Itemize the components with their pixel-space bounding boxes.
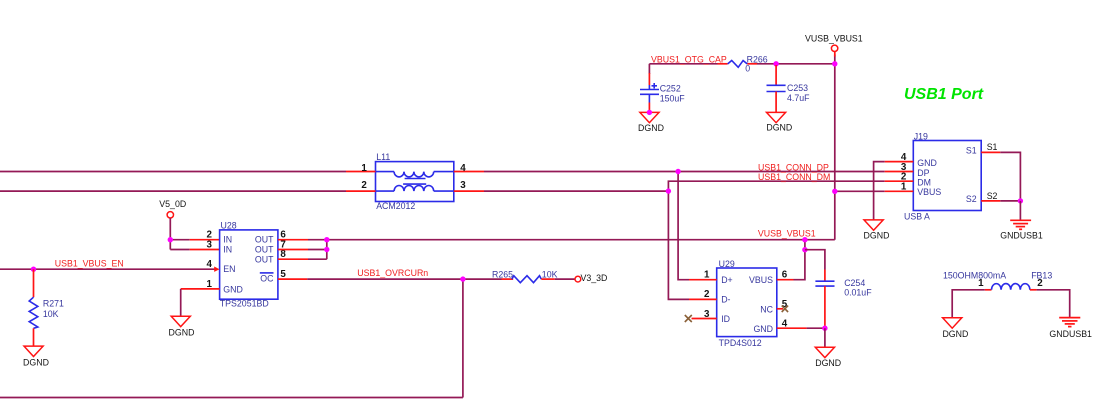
ground GNDUSB1 under FB13 [1059, 318, 1080, 327]
pin 4 stub of L11 [454, 171, 484, 173]
svg-text:DGND: DGND [864, 231, 890, 241]
wire bottom vertical to USB1_OVRCURn [462, 279, 464, 397]
svg-text:DGND: DGND [815, 358, 841, 368]
wire U29 GND pin [777, 327, 825, 329]
junction OUT 7 [324, 247, 329, 252]
svg-text:10K: 10K [43, 309, 59, 319]
wire USB1_CONN_DM left segment (choke D-) [0, 190, 346, 192]
wire D+ vertical to U29 [678, 172, 689, 280]
svg-text:OC: OC [260, 274, 274, 284]
wire OUT pin 8 [278, 240, 327, 260]
wire VUSB_VBUS1 horizontal [327, 239, 835, 241]
wire S1 [981, 152, 1020, 201]
pin EN arrow [214, 267, 219, 272]
junction C254 ground [822, 326, 827, 331]
svg-text:V5_0D: V5_0D [159, 199, 186, 209]
ground GNDUSB1 under J19 [1010, 220, 1031, 229]
pin stub GND J19 [885, 161, 914, 163]
pin stub D+ [689, 279, 717, 281]
svg-text:TPD4S012: TPD4S012 [719, 338, 762, 348]
ground DGND under C254 [815, 347, 834, 357]
wire S2 [981, 200, 1020, 202]
svg-text:S1: S1 [966, 145, 977, 155]
junction DP [675, 169, 680, 174]
svg-text:USB1_CONN_DP: USB1_CONN_DP [758, 162, 829, 172]
svg-text:OUT: OUT [255, 254, 274, 264]
wire OUT pin 7 [278, 249, 327, 251]
wire V5_0D to IN pin 2 [170, 239, 219, 241]
transistor U29 body [717, 268, 777, 337]
junction R271 tap [31, 267, 36, 272]
junction DM [666, 188, 671, 193]
ferrite bead FB13 [985, 284, 1037, 290]
svg-text:1: 1 [978, 278, 984, 289]
wire U28 GND pin [181, 289, 220, 316]
svg-text:R271: R271 [43, 298, 64, 308]
svg-text:2: 2 [361, 180, 367, 191]
inductor L11 [376, 162, 454, 202]
svg-text:EN: EN [223, 264, 235, 274]
wire USB1_CONN_DP left segment [0, 171, 346, 173]
overline OC [260, 272, 274, 274]
ground DGND under R271 [24, 346, 43, 356]
pin 2 stub of L11 [346, 190, 376, 192]
svg-text:3: 3 [207, 239, 213, 250]
svg-text:0: 0 [745, 63, 750, 73]
svg-text:DGND: DGND [942, 329, 968, 339]
svg-text:2: 2 [1037, 278, 1043, 289]
svg-text:DGND: DGND [23, 358, 49, 368]
wire USB1_VBUS_EN [0, 268, 215, 270]
svg-text:C252: C252 [660, 83, 681, 93]
svg-text:ACM2012: ACM2012 [376, 201, 415, 211]
svg-text:DGND: DGND [638, 123, 664, 133]
svg-text:GNDUSB1: GNDUSB1 [1000, 230, 1043, 240]
ground DGND under C253 [767, 112, 786, 122]
wire D- vertical to U29 [668, 191, 689, 299]
svg-text:L11: L11 [376, 152, 390, 162]
junction VUSB tap [802, 237, 807, 242]
ground DGND under C252 [640, 112, 659, 122]
connector J19 body [913, 141, 981, 211]
wire J19 VBUS feed [835, 190, 885, 192]
wire bottom horizontal run [0, 397, 463, 399]
wire C254 branch top [805, 250, 825, 270]
svg-text:DGND: DGND [766, 123, 792, 133]
wire U29 VBUS to rail [777, 240, 805, 280]
junction V5_0D [168, 237, 173, 242]
svg-text:USB1_CONN_DM: USB1_CONN_DM [758, 172, 830, 182]
wire USB1_CONN_DM upper segment to J19 [668, 181, 884, 191]
power symbol V3_3D [575, 276, 581, 282]
svg-text:IN: IN [223, 235, 232, 245]
op-amp U28 body [220, 230, 278, 299]
ground DGND under FB13 [943, 318, 962, 328]
resistor R266 [718, 61, 758, 68]
svg-text:VUSB_VBUS1: VUSB_VBUS1 [805, 34, 863, 44]
wire S2 to GNDUSB1 [1019, 201, 1021, 220]
svg-text:GND: GND [917, 158, 937, 168]
ground DGND under U28 [171, 316, 190, 326]
svg-text:USB1 Port: USB1 Port [904, 86, 984, 103]
capacitor C254 [815, 270, 834, 329]
svg-text:3: 3 [460, 180, 466, 191]
pin stub DM J19 [885, 180, 914, 182]
wire VBUS1_OTG_CAP net [649, 64, 834, 74]
svg-text:D-: D- [721, 295, 730, 305]
svg-text:4: 4 [207, 259, 213, 270]
pin stub NC [777, 308, 783, 310]
wire OUT pin 6 maroon continuation [308, 239, 327, 241]
junction VUSB tee [802, 247, 807, 252]
wire FB13 right to GNDUSB1 [1037, 290, 1070, 318]
svg-text:1: 1 [361, 163, 367, 174]
wire VUSB_VBUS1 rail vertical [834, 55, 836, 240]
pin stub DP J19 [885, 171, 914, 173]
wire OUT pin 6 [278, 239, 308, 241]
svg-text:VBUS: VBUS [749, 275, 773, 285]
svg-text:VUSB_VBUS1: VUSB_VBUS1 [758, 229, 816, 239]
junction rail top [832, 61, 837, 66]
svg-text:ID: ID [721, 314, 730, 324]
svg-text:DP: DP [917, 168, 929, 178]
junction J19 VBUS [832, 189, 837, 194]
junction USB1_OVRCURn [460, 276, 465, 281]
svg-text:TPS2051BD: TPS2051BD [220, 299, 269, 309]
svg-text:4: 4 [460, 163, 466, 174]
svg-text:USB1_OVRCURn: USB1_OVRCURn [357, 268, 428, 278]
svg-text:NC: NC [760, 305, 773, 315]
svg-text:S2: S2 [966, 194, 977, 204]
junction C252 ground [647, 110, 652, 115]
no-connect X on NC [782, 306, 788, 312]
svg-text:VBUS: VBUS [917, 187, 941, 197]
wire USB1_CONN_DP right segment [484, 171, 885, 173]
svg-text:D+: D+ [721, 275, 733, 285]
capacitor C253 [767, 65, 786, 112]
wire choke D- to junction [484, 190, 668, 192]
wire J19 GND to DGND [874, 162, 885, 220]
svg-text:GND: GND [753, 324, 773, 334]
svg-text:DGND: DGND [169, 328, 195, 338]
wire USB1_OVRCURn [278, 278, 502, 280]
svg-text:VBUS1_OTG_CAP: VBUS1_OTG_CAP [651, 54, 727, 64]
resistor R271 [29, 269, 38, 346]
svg-text:S1: S1 [987, 142, 998, 152]
svg-text:U29: U29 [719, 259, 735, 269]
svg-text:IN: IN [223, 245, 232, 255]
junction S2 [1018, 198, 1023, 203]
svg-text:10K: 10K [542, 270, 558, 280]
svg-text:4.7uF: 4.7uF [787, 93, 810, 103]
svg-text:S2: S2 [987, 191, 998, 201]
junction OUT 6 [324, 237, 329, 242]
capacitor C252 [640, 73, 659, 112]
svg-text:V3_3D: V3_3D [581, 273, 608, 283]
wire V5_0D to IN pin 3 [170, 249, 219, 251]
svg-text:GNDUSB1: GNDUSB1 [1049, 329, 1092, 339]
pin 1 stub of L11 [346, 171, 376, 173]
pin 3 stub of L11 [454, 190, 484, 192]
svg-text:J19: J19 [914, 132, 928, 142]
pin stub VBUS J19 [885, 190, 914, 192]
pin ID wire [692, 318, 717, 320]
svg-text:USB1_VBUS_EN: USB1_VBUS_EN [55, 258, 124, 268]
pin stub D- [689, 298, 717, 300]
junction R266 to C253 [773, 61, 778, 66]
wire C254 to ground [824, 328, 826, 347]
no-connect X on ID [685, 315, 692, 322]
svg-text:C253: C253 [787, 83, 808, 93]
power symbol V5_0D [167, 212, 173, 250]
svg-text:GND: GND [223, 284, 243, 294]
power symbol VUSB_VBUS1 top [831, 45, 837, 56]
svg-text:USB A: USB A [904, 211, 930, 221]
svg-text:0.01uF: 0.01uF [844, 288, 872, 298]
resistor R265 [502, 276, 576, 283]
svg-text:150OHM800mA: 150OHM800mA [943, 270, 1006, 280]
wire FB13 left to DGND [952, 290, 985, 318]
svg-text:150uF: 150uF [660, 93, 686, 103]
svg-text:OUT: OUT [255, 245, 274, 255]
svg-text:R265: R265 [492, 270, 513, 280]
svg-text:OUT: OUT [255, 235, 274, 245]
svg-text:U28: U28 [221, 221, 237, 231]
ground DGND under J19 [864, 220, 883, 230]
